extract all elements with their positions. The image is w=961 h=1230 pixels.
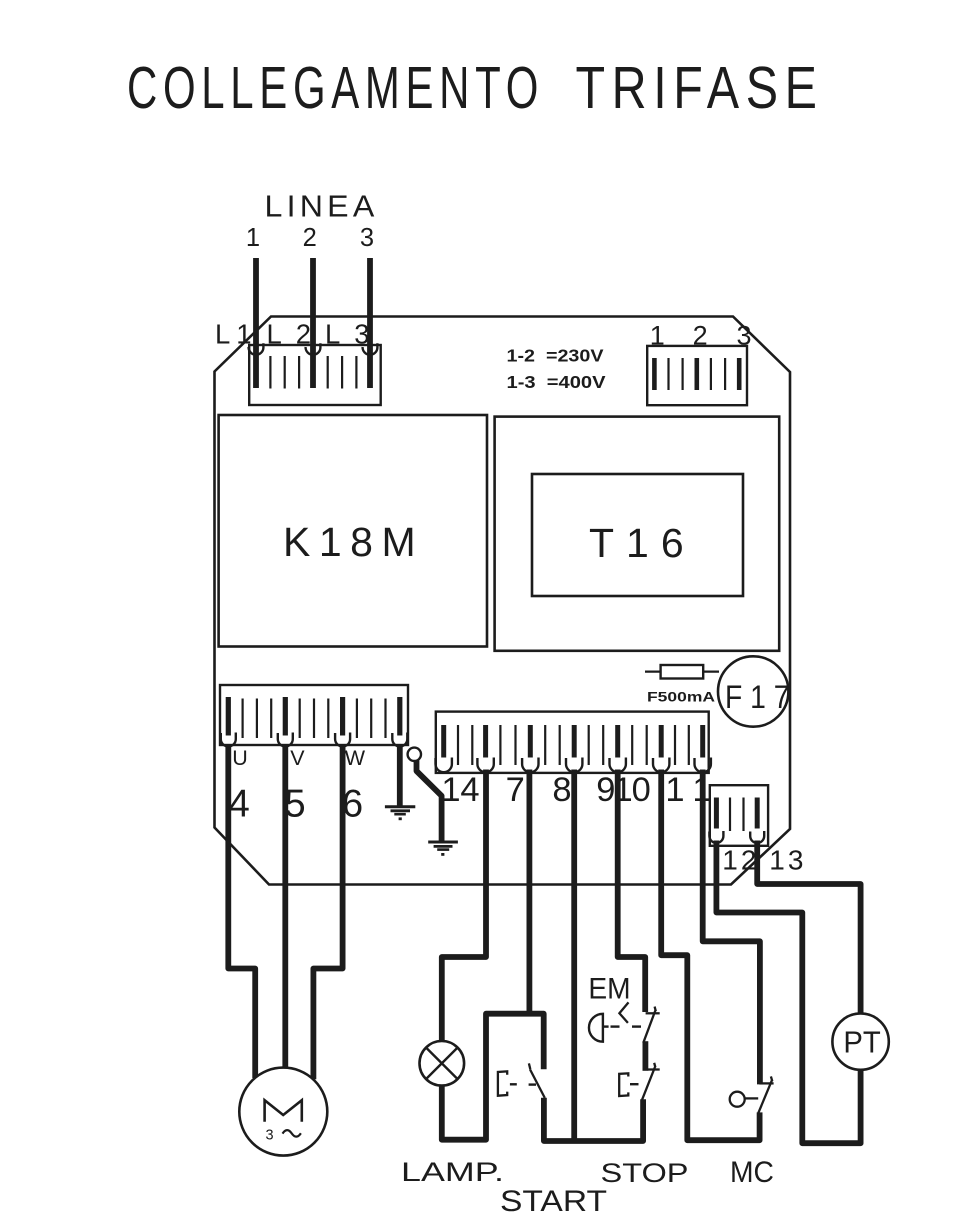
svg-text:1: 1	[614, 771, 633, 809]
svg-text:1: 1	[665, 771, 684, 809]
svg-text:5: 5	[284, 782, 305, 825]
svg-text:1-2 =230V: 1-2 =230V	[507, 346, 604, 366]
svg-text:LINEA: LINEA	[265, 189, 379, 223]
svg-text:1-3 =400V: 1-3 =400V	[507, 372, 606, 392]
svg-text:F500mA: F500mA	[647, 688, 715, 704]
svg-text:COLLEGAMENTO: COLLEGAMENTO	[127, 55, 544, 121]
svg-text:1: 1	[692, 771, 711, 809]
svg-text:0: 0	[632, 771, 651, 809]
svg-text:3: 3	[360, 224, 374, 252]
svg-text:3: 3	[265, 1128, 273, 1144]
svg-text:3: 3	[736, 320, 751, 350]
svg-text:L1: L1	[215, 318, 258, 349]
svg-text:PT: PT	[843, 1024, 880, 1059]
svg-text:7: 7	[506, 771, 525, 809]
svg-text:MC: MC	[730, 1156, 774, 1189]
svg-text:K18M: K18M	[283, 519, 424, 565]
svg-text:6: 6	[342, 782, 363, 825]
svg-text:EM: EM	[588, 973, 630, 1006]
svg-text:1: 1	[246, 224, 260, 252]
svg-text:8: 8	[552, 771, 571, 809]
svg-text:STOP: STOP	[601, 1158, 689, 1188]
svg-text:F 1 7: F 1 7	[725, 679, 790, 715]
svg-text:W: W	[345, 746, 366, 770]
svg-text:13: 13	[769, 845, 806, 876]
svg-text:START: START	[500, 1185, 607, 1218]
svg-text:2: 2	[693, 320, 708, 350]
svg-text:2: 2	[303, 224, 317, 252]
svg-text:1: 1	[650, 320, 665, 350]
svg-text:V: V	[290, 746, 305, 770]
svg-text:L2: L2	[267, 318, 326, 349]
svg-text:1: 1	[441, 771, 460, 809]
svg-text:4: 4	[228, 782, 249, 825]
svg-text:LAMP.: LAMP.	[401, 1157, 504, 1187]
svg-text:T16: T16	[589, 520, 696, 566]
svg-text:4: 4	[460, 771, 479, 809]
svg-text:L3: L3	[325, 318, 384, 349]
svg-text:TRIFASE: TRIFASE	[576, 55, 824, 121]
svg-text:12: 12	[722, 845, 759, 876]
svg-text:U: U	[232, 746, 248, 770]
